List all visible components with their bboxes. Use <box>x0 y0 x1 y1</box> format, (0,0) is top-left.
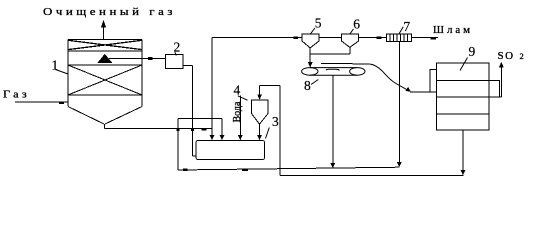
svg-text:2: 2 <box>174 40 181 55</box>
svg-text:Шлам: Шлам <box>433 24 473 36</box>
svg-text:3: 3 <box>272 114 279 129</box>
svg-text:6: 6 <box>353 17 360 32</box>
svg-text:SO: SO <box>498 50 515 62</box>
svg-text:4: 4 <box>234 83 241 98</box>
svg-text:2: 2 <box>520 51 524 61</box>
svg-text:7: 7 <box>403 19 410 34</box>
svg-text:Вода: Вода <box>232 101 243 122</box>
svg-text:1: 1 <box>52 58 59 73</box>
svg-text:8: 8 <box>304 78 311 93</box>
svg-text:Очищенный газ: Очищенный газ <box>43 6 176 18</box>
svg-text:Газ: Газ <box>3 89 30 101</box>
svg-text:9: 9 <box>469 44 476 59</box>
svg-text:5: 5 <box>315 16 322 31</box>
